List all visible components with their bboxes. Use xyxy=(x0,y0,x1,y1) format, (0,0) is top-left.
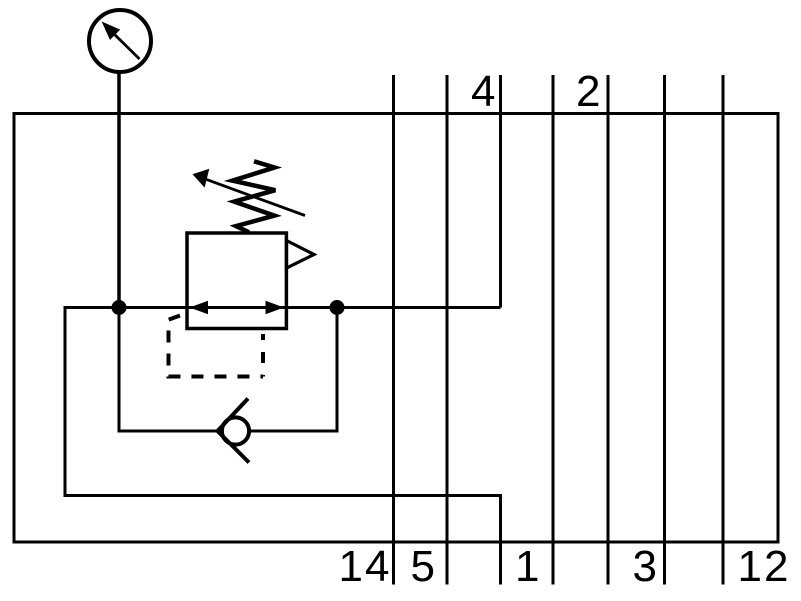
regulator R1: relief vent triangle xyxy=(287,241,315,269)
gauge G1: pressure gauge circle xyxy=(89,10,151,72)
check valve V2: seat V lower line xyxy=(218,431,250,463)
wire: port line 2 (vertical, x=608) xyxy=(607,75,610,585)
check valve V2: circle body xyxy=(222,417,249,444)
wire: left feedback vertical (x=65) xyxy=(64,306,67,497)
wire: main line from regulator to port 4 (horizontal, y=307.5) xyxy=(65,306,501,309)
wire: check valve loop bottom horizontal (y=431) xyxy=(118,430,339,433)
regulator R1: flow path left arrowhead xyxy=(190,301,209,314)
node: junction dot right (check loop / output tap) xyxy=(330,300,345,315)
check valve V2: seat V upper line xyxy=(218,399,249,432)
gauge G1: needle arrowhead xyxy=(103,22,120,39)
wire: port line 1 (vertical, x=553) xyxy=(552,75,555,585)
wire: gauge stem (x=119) xyxy=(117,70,121,308)
svg-text:1: 1 xyxy=(515,542,539,591)
gauge G1: needle shaft xyxy=(111,31,140,59)
wire: port line 4 upper segment (vertical, x=500.5) xyxy=(499,75,502,308)
svg-text:3: 3 xyxy=(633,542,657,591)
regulator R1: flow path shaft (double arrow) xyxy=(198,306,277,309)
wire: port line 14 (vertical, x=393.5) xyxy=(392,75,395,585)
svg-text:12: 12 xyxy=(738,542,791,591)
node: junction dot left (gauge / check loop tap) xyxy=(112,300,127,315)
wire: port line 3 (vertical, x=664.5) xyxy=(663,75,666,585)
wire: check valve loop left vertical (x=119) xyxy=(118,308,121,433)
regulator R1: adjustment arrow shaft xyxy=(203,178,305,215)
svg-text:2: 2 xyxy=(576,67,600,116)
pilot line: dashed right riser to regulator body xyxy=(261,334,265,377)
wire: port line 5 (vertical, x=447) xyxy=(446,75,449,585)
svg-text:5: 5 xyxy=(411,542,435,591)
wire: port line 12 (vertical, x=723) xyxy=(722,75,725,585)
wire: outer enclosure rectangle xyxy=(14,114,778,543)
regulator R1: valve body box xyxy=(187,233,286,329)
wire: bottom feedback horizontal (y=495.5) xyxy=(65,494,502,497)
regulator R1: flow path right arrowhead xyxy=(266,301,285,314)
regulator R1: adjustment arrowhead xyxy=(193,169,210,188)
wire: port line 4 lower stub segment xyxy=(499,496,502,585)
regulator R1: adjustment spring zigzag xyxy=(233,161,276,232)
pilot line: dashed pressure-sensing path under regulator xyxy=(169,316,264,377)
svg-text:4: 4 xyxy=(471,67,495,116)
wire: check valve loop right vertical (x=337) xyxy=(336,308,339,432)
svg-text:14: 14 xyxy=(339,542,392,591)
